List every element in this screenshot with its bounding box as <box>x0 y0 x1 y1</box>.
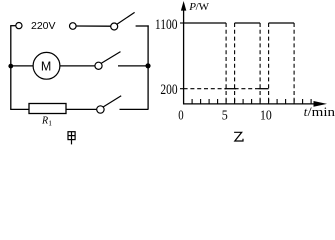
P curve solid 200 W segment 5-6 min <box>225 88 237 90</box>
x-axis arrowhead <box>314 101 328 107</box>
wire left vertical <box>10 26 12 110</box>
dashed vertical guide t=10 <box>268 23 270 104</box>
terminal circle right of 220V <box>70 23 77 30</box>
resistor R1 <box>29 104 66 114</box>
node junction dot left <box>8 64 13 69</box>
wire S3 contact to bottom-right corner <box>120 108 149 110</box>
svg-text:5: 5 <box>222 108 228 123</box>
P curve solid 1100 W segment 0-5 min <box>184 22 227 24</box>
svg-text:1100: 1100 <box>155 17 178 33</box>
svg-text:/W: /W <box>196 1 210 13</box>
P curve solid 200 W segment 9-10 min <box>259 88 269 90</box>
x-axis ticks <box>192 99 311 104</box>
x-axis <box>183 103 315 105</box>
P curve solid 1100 W segment 6-9 min <box>235 22 261 24</box>
svg-text:1: 1 <box>48 118 52 127</box>
dashed vertical guide t=13 <box>293 23 295 104</box>
wire right vertical <box>147 25 149 109</box>
svg-text:0: 0 <box>178 108 183 123</box>
dashed vertical guide t=5 <box>225 23 227 104</box>
switch S2 pivot circle <box>95 62 102 69</box>
wire bottom branch left <box>10 108 29 110</box>
svg-text:/min: /min <box>308 105 335 119</box>
switch S3 lever <box>103 96 121 107</box>
switch S2 lever <box>101 52 120 64</box>
switch S1 lever <box>117 12 135 24</box>
motor M circle <box>33 52 60 79</box>
svg-text:M: M <box>41 59 51 73</box>
wire S1 contact to top-right corner <box>136 25 149 27</box>
y-axis arrowhead <box>181 1 186 11</box>
switch S1 pivot circle <box>111 23 118 30</box>
wire top branch from corner to terminal <box>10 25 16 27</box>
y-axis tick at 200 <box>180 88 184 90</box>
y-axis tick at 1100 <box>180 22 184 24</box>
dashed vertical guide t=9 <box>259 23 261 104</box>
y-axis <box>183 8 185 104</box>
label jia (甲) drawn glyph <box>68 132 75 145</box>
wire motor to switch S2 <box>60 65 95 67</box>
svg-text:R: R <box>41 115 48 126</box>
svg-text:220V: 220V <box>31 20 56 32</box>
label yi (乙) drawn glyph <box>234 132 243 141</box>
P curve solid 1100 W segment 10-13 min <box>269 22 295 24</box>
wire resistor to switch S3 <box>66 108 96 110</box>
terminal circle left of 220V <box>16 23 22 29</box>
dashed horizontal guide at 200 (0 to 5) <box>184 88 227 90</box>
dashed vertical guide t=6 <box>234 23 236 104</box>
svg-text:10: 10 <box>260 108 272 123</box>
dashed horizontal guide at 200 (6 to 9) <box>235 88 261 90</box>
svg-text:200: 200 <box>160 82 177 98</box>
wire terminal to switch S1 <box>76 25 110 27</box>
wire middle branch left <box>11 65 33 67</box>
node junction dot right <box>145 63 150 68</box>
wire S2 contact to right node <box>118 65 148 67</box>
switch S3 pivot circle <box>97 106 104 113</box>
